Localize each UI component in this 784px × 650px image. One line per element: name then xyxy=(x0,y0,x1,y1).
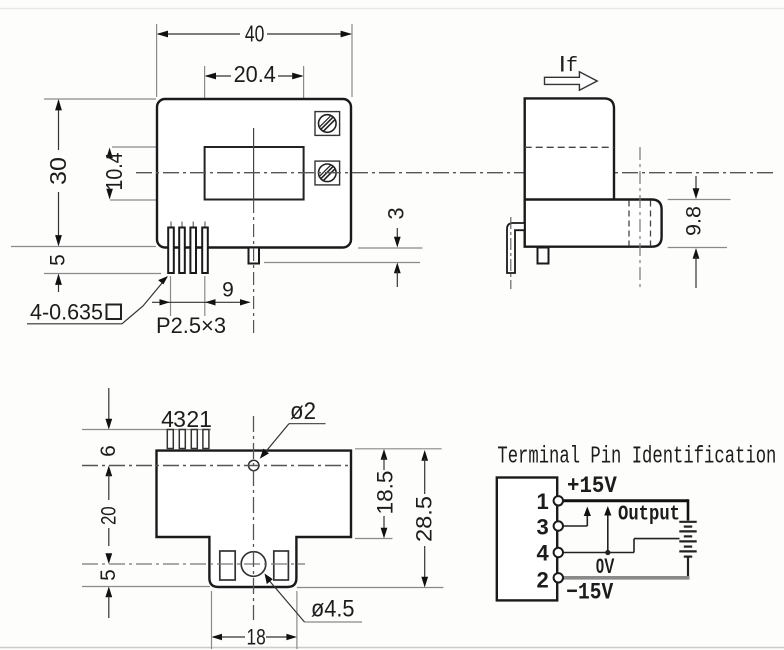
svg-text:9: 9 xyxy=(222,279,234,302)
svg-text:40: 40 xyxy=(245,21,265,47)
svg-text:4-0.635: 4-0.635 xyxy=(30,300,103,325)
svg-text:ø4.5: ø4.5 xyxy=(311,596,355,623)
svg-text:18: 18 xyxy=(247,625,266,650)
svg-text:10.4: 10.4 xyxy=(101,152,127,190)
svg-text:18.5: 18.5 xyxy=(373,471,398,515)
svg-text:3: 3 xyxy=(384,207,409,219)
svg-text:20.4: 20.4 xyxy=(234,61,276,87)
svg-text:2: 2 xyxy=(186,406,199,432)
svg-text:5: 5 xyxy=(97,569,120,581)
svg-text:4: 4 xyxy=(536,541,549,566)
svg-text:3: 3 xyxy=(536,515,548,540)
svg-text:6: 6 xyxy=(97,445,120,457)
svg-text:28.5: 28.5 xyxy=(412,496,437,542)
svg-text:1: 1 xyxy=(199,406,212,432)
svg-text:−15V: −15V xyxy=(566,580,613,606)
svg-text:30: 30 xyxy=(45,157,71,185)
svg-text:3: 3 xyxy=(173,406,186,432)
svg-text:P2.5×3: P2.5×3 xyxy=(156,313,226,338)
svg-text:20: 20 xyxy=(97,506,120,525)
svg-text:+15V: +15V xyxy=(567,473,617,499)
svg-text:9.8: 9.8 xyxy=(683,206,706,236)
svg-text:f: f xyxy=(566,55,578,78)
svg-text:Output: Output xyxy=(618,504,680,527)
svg-text:2: 2 xyxy=(536,567,548,592)
svg-text:5: 5 xyxy=(47,254,70,266)
svg-text:ø2: ø2 xyxy=(290,398,316,425)
svg-text:0V: 0V xyxy=(596,555,615,578)
svg-text:Terminal Pin Identification: Terminal Pin Identification xyxy=(497,444,776,471)
svg-text:1: 1 xyxy=(536,489,548,514)
